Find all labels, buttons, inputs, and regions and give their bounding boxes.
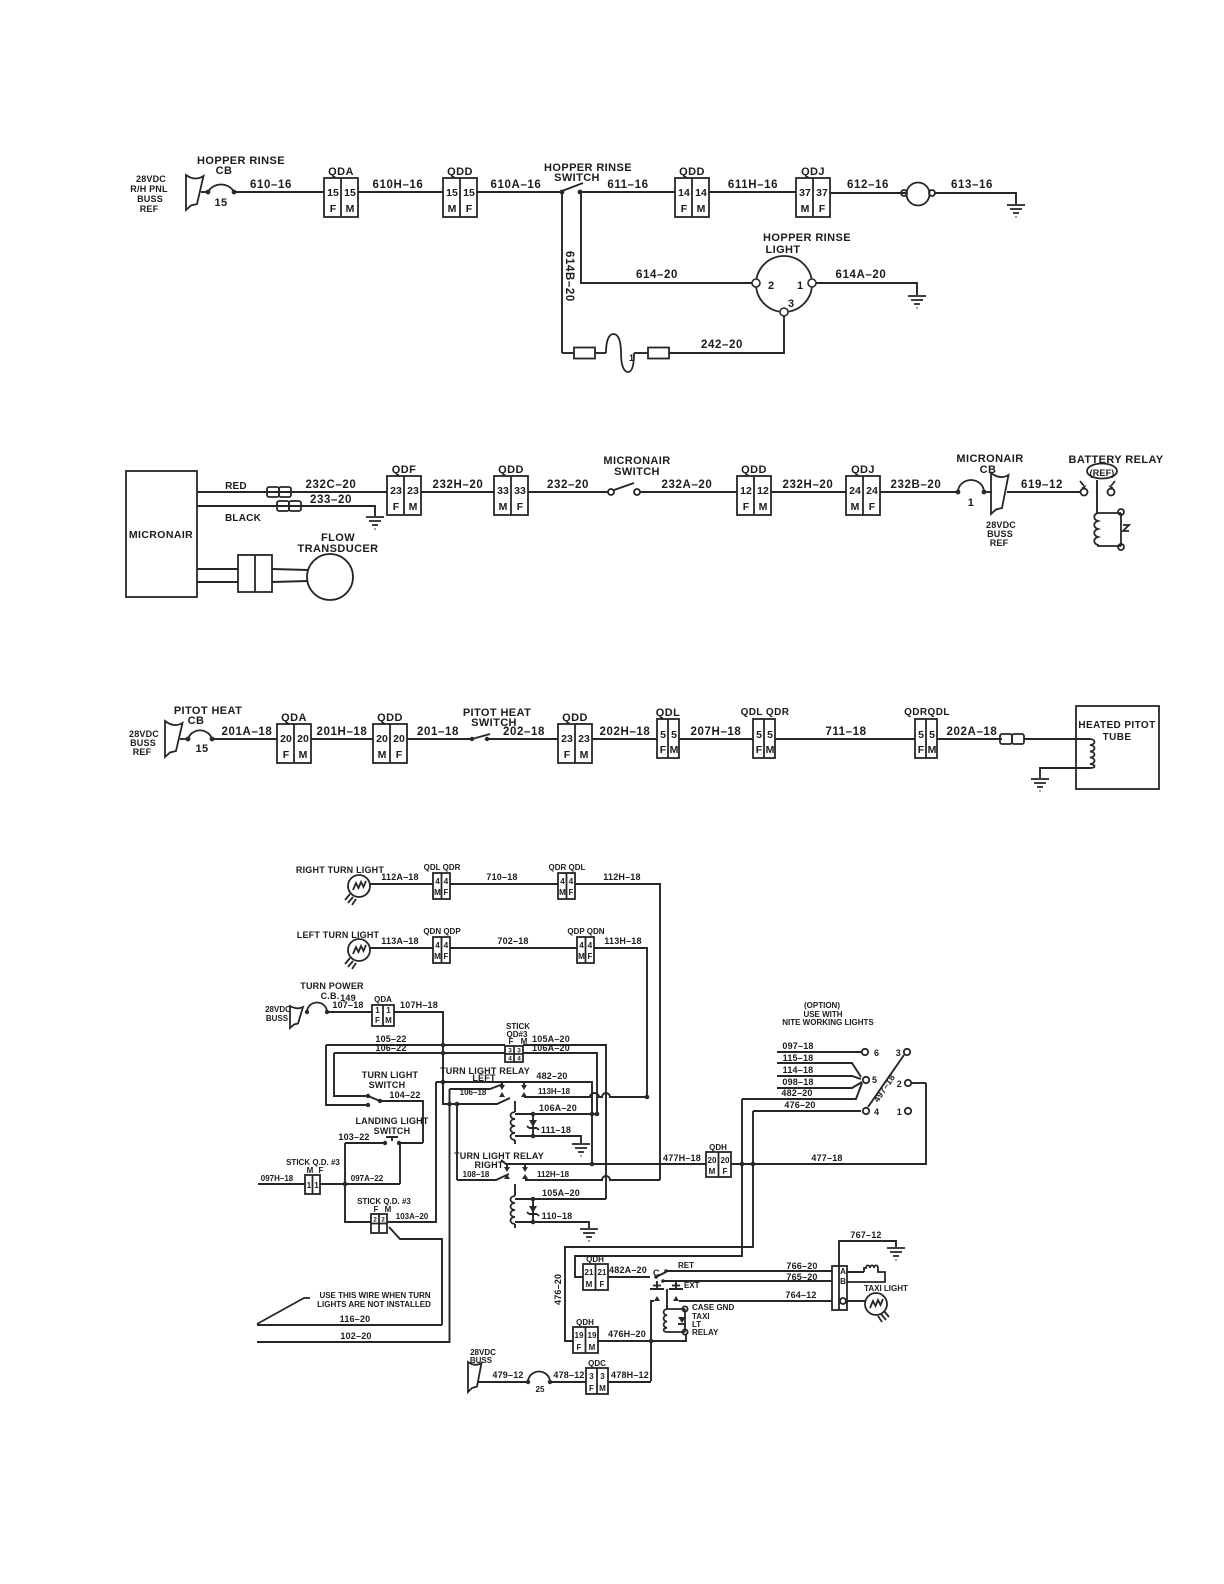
svg-text:REF: REF	[140, 204, 159, 214]
svg-text:3: 3	[517, 1048, 521, 1055]
svg-text:4: 4	[874, 1107, 879, 1117]
relay TURN LIGHT RELAY RIGHT	[454, 1151, 544, 1170]
svg-text:232–20: 232–20	[547, 479, 589, 491]
svg-text:QDD: QDD	[741, 464, 767, 476]
wire 202H-18	[592, 726, 657, 739]
wire 610H-16	[358, 179, 443, 192]
svg-text:M: M	[448, 203, 457, 215]
wire pitot ground lead	[1040, 768, 1090, 778]
svg-text:QDL: QDL	[656, 707, 680, 719]
svg-text:M: M	[580, 749, 589, 761]
svg-text:1: 1	[797, 280, 804, 292]
svg-text:2: 2	[381, 1217, 385, 1224]
svg-text:3: 3	[788, 298, 795, 310]
svg-text:LANDING LIGHT: LANDING LIGHT	[355, 1116, 428, 1126]
svg-text:232C–20: 232C–20	[306, 479, 357, 491]
wire 103A-20	[387, 1082, 436, 1222]
svg-text:REF: REF	[990, 538, 1009, 548]
svg-text:619–12: 619–12	[1021, 479, 1063, 491]
svg-text:15: 15	[195, 743, 208, 755]
svg-text:BUSS: BUSS	[266, 1014, 289, 1023]
circuit breaker CB HOPPER RINSE 15	[197, 155, 285, 209]
svg-text:SWITCH: SWITCH	[369, 1080, 406, 1090]
svg-text:RELAY: RELAY	[692, 1328, 719, 1337]
svg-text:106A–20: 106A–20	[532, 1043, 570, 1053]
svg-text:QDD: QDD	[498, 464, 524, 476]
buss bar turn power	[290, 1006, 303, 1028]
wire 110-18 to ground	[515, 1211, 589, 1228]
terminal 5	[863, 1075, 877, 1085]
svg-text:112A–18: 112A–18	[381, 872, 418, 882]
svg-text:610–16: 610–16	[250, 179, 292, 191]
inline connector 242-20 right	[648, 348, 669, 359]
svg-text:113H–18: 113H–18	[538, 1087, 571, 1096]
svg-text:F: F	[600, 1280, 605, 1289]
wire relay right top 477H feed	[501, 1160, 706, 1166]
svg-text:QDL QDR: QDL QDR	[741, 707, 790, 718]
switch PITOT HEAT SWITCH	[463, 707, 531, 741]
wire 111-18 to ground	[515, 1125, 581, 1143]
circuit breaker MICRONAIR CB 1	[956, 453, 1024, 509]
note (OPTION) USE WITH NITE WORKING LIGHTS	[782, 1001, 874, 1027]
inline connector 242-20 left	[574, 348, 595, 359]
svg-text:HOPPER RINSE: HOPPER RINSE	[763, 232, 851, 244]
HEATED PITOT TUBE box	[1076, 706, 1159, 789]
flow transducer coupling box	[238, 555, 272, 592]
svg-text:1: 1	[386, 1006, 391, 1015]
svg-text:478–12: 478–12	[553, 1370, 584, 1380]
svg-text:23: 23	[390, 485, 402, 497]
wire 476 option drop to QDH 19	[565, 1111, 753, 1341]
wire 115-18 option	[777, 1053, 861, 1077]
node 28VDC BUSS REF row3	[129, 729, 159, 757]
wire 201A-18	[212, 726, 277, 739]
svg-text:CB: CB	[216, 165, 233, 177]
svg-text:QDRQDL: QDRQDL	[904, 707, 950, 718]
svg-text:19: 19	[575, 1331, 584, 1340]
svg-text:482–20: 482–20	[536, 1071, 567, 1081]
svg-text:232A–20: 232A–20	[662, 479, 713, 491]
wire 477-18	[731, 1083, 926, 1166]
wire 112H-18 to relay right	[575, 872, 660, 1180]
svg-text:097H–18: 097H–18	[261, 1174, 294, 1183]
lamp RIGHT TURN LIGHT	[296, 865, 384, 905]
svg-text:HOPPER RINSE: HOPPER RINSE	[197, 155, 285, 167]
svg-text:BLACK: BLACK	[225, 513, 262, 524]
svg-text:3: 3	[896, 1048, 901, 1058]
wire 107-18	[327, 1000, 372, 1012]
wire RED 232C-20	[197, 479, 387, 492]
svg-text:20: 20	[708, 1156, 717, 1165]
svg-text:SWITCH: SWITCH	[374, 1126, 411, 1136]
svg-text:610A–16: 610A–16	[491, 179, 542, 191]
svg-text:612–16: 612–16	[847, 179, 889, 191]
svg-text:767–12: 767–12	[850, 1230, 881, 1240]
svg-text:3: 3	[600, 1372, 605, 1381]
svg-text:110–18: 110–18	[542, 1211, 573, 1221]
inline connector 202A-18	[1000, 734, 1024, 744]
svg-text:614A–20: 614A–20	[836, 269, 887, 281]
svg-text:476–20: 476–20	[784, 1100, 815, 1110]
connector QDP QDN 4/4 M/F small	[567, 927, 604, 963]
svg-text:F: F	[681, 203, 688, 215]
wire buss to CB row3	[180, 738, 188, 740]
svg-text:20: 20	[297, 733, 309, 745]
inline connector red wire	[267, 487, 291, 497]
svg-text:702–18: 702–18	[497, 936, 528, 946]
svg-text:F: F	[756, 744, 763, 756]
svg-text:106–22: 106–22	[375, 1043, 406, 1053]
svg-text:476H–20: 476H–20	[608, 1329, 646, 1339]
diode suppression relay right	[527, 1199, 539, 1222]
svg-text:M: M	[307, 1166, 314, 1175]
wire 764-12	[679, 1290, 832, 1301]
wire 613-16	[935, 179, 1016, 204]
svg-text:TURN POWER: TURN POWER	[300, 981, 364, 991]
wire 097A-22	[320, 1174, 400, 1186]
svg-text:764–12: 764–12	[785, 1290, 816, 1300]
svg-text:116–20: 116–20	[340, 1314, 371, 1324]
svg-text:TAXI LIGHT: TAXI LIGHT	[864, 1284, 908, 1293]
svg-text:SWITCH: SWITCH	[614, 466, 660, 478]
svg-text:4: 4	[444, 877, 449, 886]
wire 765-20 EXT line	[663, 1272, 832, 1282]
svg-text:113A–18: 113A–18	[381, 936, 418, 946]
svg-text:REF: REF	[133, 747, 152, 757]
svg-text:5: 5	[671, 729, 677, 741]
inline connector black wire	[277, 501, 301, 511]
svg-text:BATTERY RELAY: BATTERY RELAY	[1068, 454, 1163, 466]
svg-text:M: M	[697, 203, 706, 215]
wire 106-18 blade	[450, 1084, 504, 1097]
svg-text:14: 14	[678, 187, 690, 199]
wire 116-20	[257, 1314, 442, 1325]
connector QDL QDR 4/4 M/F small	[424, 863, 461, 899]
svg-text:QDL QDR: QDL QDR	[424, 863, 461, 872]
svg-text:QDH: QDH	[586, 1255, 604, 1264]
svg-text:F: F	[577, 1343, 582, 1352]
relay CASE GND TAXI LT RELAY contacts	[650, 1281, 683, 1309]
wire 611-16	[580, 179, 675, 192]
svg-text:202H–18: 202H–18	[600, 726, 651, 738]
FLOW TRANSDUCER sensor	[298, 532, 379, 600]
terminal 2	[897, 1079, 926, 1089]
svg-text:098–18: 098–18	[782, 1077, 813, 1087]
svg-text:207H–18: 207H–18	[691, 726, 742, 738]
svg-text:QDD: QDD	[447, 166, 473, 178]
svg-text:4: 4	[560, 877, 565, 886]
wire 614A-20	[816, 269, 917, 295]
svg-text:M: M	[851, 501, 860, 513]
wire 202A-18	[937, 726, 1002, 739]
contact relay left upper pair	[499, 1082, 527, 1097]
wire 098-18 option	[777, 1077, 862, 1088]
wire 482-20 relay left top	[436, 1071, 592, 1164]
svg-text:M: M	[670, 744, 679, 756]
terminal 6	[862, 1048, 879, 1058]
svg-text:12: 12	[757, 485, 769, 497]
wire 106-22	[334, 1043, 505, 1096]
connector QDH 21/21 M/F	[583, 1255, 608, 1290]
svg-text:F: F	[589, 1384, 594, 1393]
buss bar row3	[165, 721, 183, 757]
svg-text:15: 15	[446, 187, 458, 199]
svg-text:5: 5	[767, 729, 773, 741]
wire 105-22	[326, 1034, 505, 1105]
wire 619-12	[1007, 479, 1081, 492]
svg-text:611H–16: 611H–16	[728, 179, 778, 191]
svg-text:3: 3	[508, 1048, 512, 1055]
wire 482-20 option	[742, 1083, 862, 1099]
svg-text:15: 15	[463, 187, 475, 199]
connector QDA 1/1 F/M small	[372, 995, 394, 1026]
svg-text:M: M	[385, 1016, 392, 1025]
svg-text:LIGHT: LIGHT	[766, 244, 801, 256]
svg-text:37: 37	[799, 187, 811, 199]
svg-text:PITOT HEAT: PITOT HEAT	[174, 705, 242, 717]
svg-text:M: M	[559, 888, 566, 897]
svg-text:(REF): (REF)	[1090, 468, 1115, 478]
ground 767-12	[887, 1248, 905, 1260]
svg-text:F: F	[918, 744, 925, 756]
wire 107H-18 power feed	[394, 1000, 443, 1104]
svg-text:M: M	[434, 952, 441, 961]
svg-text:765–20: 765–20	[786, 1272, 817, 1282]
wire 108 riser from relay left	[456, 1104, 458, 1180]
svg-text:108–18: 108–18	[463, 1170, 490, 1179]
svg-text:NITE WORKING LIGHTS: NITE WORKING LIGHTS	[782, 1018, 874, 1027]
svg-text:M: M	[409, 501, 418, 513]
connector QDC 3/3 F/M	[586, 1359, 608, 1394]
connector QDL 5/5 F/M	[656, 707, 680, 758]
svg-text:37: 37	[816, 187, 828, 199]
svg-text:1: 1	[897, 1107, 902, 1117]
svg-text:20: 20	[376, 733, 388, 745]
svg-text:F: F	[393, 501, 400, 513]
svg-text:115–18: 115–18	[783, 1053, 814, 1063]
connector QDH 20/20 M/F	[706, 1143, 731, 1177]
switch MICRONAIR SWITCH	[603, 455, 670, 495]
wire 478H-12	[608, 1370, 651, 1382]
svg-text:F: F	[444, 952, 449, 961]
svg-text:F: F	[396, 749, 403, 761]
svg-text:1: 1	[314, 1181, 319, 1190]
diode suppression relay left	[527, 1114, 539, 1136]
svg-text:QDH: QDH	[576, 1318, 594, 1327]
connector QDF 23/23 F/M	[387, 464, 421, 515]
connector QDR QDL 4/4 M/F small	[549, 863, 586, 899]
svg-text:097A–22: 097A–22	[351, 1174, 384, 1183]
svg-text:F: F	[819, 203, 826, 215]
svg-text:610H–16: 610H–16	[373, 179, 424, 191]
svg-text:766–20: 766–20	[786, 1261, 817, 1271]
svg-text:RET: RET	[678, 1261, 694, 1270]
svg-text:1: 1	[375, 1006, 380, 1015]
svg-text:M: M	[499, 501, 508, 513]
wire 242-20 with inline fuses and flasher loop	[562, 316, 784, 353]
circuit breaker turn power	[305, 1003, 329, 1015]
svg-text:QDD: QDD	[562, 712, 588, 724]
svg-text:QDD: QDD	[679, 166, 705, 178]
switch RET/EXT selector	[654, 1261, 699, 1290]
svg-text:20: 20	[721, 1156, 730, 1165]
svg-text:M: M	[759, 501, 768, 513]
svg-text:710–18: 710–18	[486, 872, 517, 882]
svg-text:202A–18: 202A–18	[947, 726, 998, 738]
connector QDL QDR 5/5 F/M	[741, 707, 790, 758]
svg-text:QDA: QDA	[328, 166, 354, 178]
svg-text:LIGHTS ARE NOT INSTALLED: LIGHTS ARE NOT INSTALLED	[317, 1300, 431, 1309]
svg-text:CASE GND: CASE GND	[692, 1303, 734, 1312]
svg-text:102–20: 102–20	[340, 1331, 371, 1341]
node TURN POWER C.B. 149	[300, 981, 364, 1003]
svg-text:M: M	[378, 749, 387, 761]
wire 105A-20	[523, 1034, 606, 1199]
svg-text:M: M	[801, 203, 810, 215]
svg-text:QDA: QDA	[281, 712, 307, 724]
svg-text:232B–20: 232B–20	[891, 479, 942, 491]
svg-text:HEATED PITOT: HEATED PITOT	[1078, 720, 1155, 731]
wire 106A-20	[523, 1043, 597, 1114]
svg-text:F: F	[509, 1037, 514, 1046]
svg-text:QDF: QDF	[392, 464, 416, 476]
lamp TAXI LIGHT	[847, 1284, 908, 1322]
svg-text:106–18: 106–18	[460, 1088, 487, 1097]
wire 478-12	[550, 1370, 586, 1382]
wire 201H-18	[311, 726, 373, 739]
svg-text:20: 20	[393, 733, 405, 745]
svg-text:QDJ: QDJ	[851, 464, 875, 476]
svg-text:482A–20: 482A–20	[609, 1265, 647, 1275]
wire into pitot tube	[1024, 738, 1090, 740]
svg-text:103A–20: 103A–20	[396, 1212, 429, 1221]
svg-text:4: 4	[435, 941, 440, 950]
svg-text:233–20: 233–20	[310, 494, 352, 506]
svg-text:RIGHT: RIGHT	[475, 1160, 504, 1170]
wire 112H-18 relay right with hop	[525, 1170, 660, 1180]
wire 482 option drop to QDH 21	[575, 1099, 742, 1277]
switch LANDING LIGHT SWITCH	[338, 1116, 428, 1145]
svg-text:15: 15	[344, 187, 356, 199]
svg-text:BUSS: BUSS	[137, 194, 163, 204]
svg-text:1: 1	[968, 497, 975, 509]
svg-text:2: 2	[768, 280, 775, 292]
wire 710-18	[450, 872, 558, 884]
svg-text:5: 5	[872, 1075, 877, 1085]
svg-text:478H–12: 478H–12	[611, 1370, 649, 1380]
svg-text:USE THIS WIRE WHEN TURN: USE THIS WIRE WHEN TURN	[319, 1291, 430, 1300]
svg-text:M: M	[709, 1167, 716, 1176]
svg-text:4: 4	[579, 941, 584, 950]
svg-text:R/H PNL: R/H PNL	[130, 184, 168, 194]
wire 097A-22 riser	[399, 1143, 401, 1184]
wire 610-16	[234, 179, 324, 192]
svg-text:33: 33	[497, 485, 509, 497]
connector QDJ 37/37 M/F	[796, 166, 830, 217]
svg-text:201–18: 201–18	[417, 726, 459, 738]
svg-text:2: 2	[897, 1079, 902, 1089]
connector QDD 33/33 M/F	[494, 464, 528, 515]
relay BATTERY RELAY (REF)	[1068, 454, 1163, 550]
node 28VDC R/H PNL BUSS REF label	[130, 174, 168, 214]
wire 201-18	[407, 726, 472, 739]
wire 108-18 blade	[457, 1170, 509, 1180]
svg-text:23: 23	[578, 733, 590, 745]
svg-text:RIGHT TURN LIGHT: RIGHT TURN LIGHT	[296, 865, 384, 875]
wire 202-18	[487, 726, 558, 739]
svg-text:F: F	[517, 501, 524, 513]
svg-text:(OPTION): (OPTION)	[804, 1001, 840, 1010]
svg-text:4: 4	[569, 877, 574, 886]
ground pitot	[1031, 779, 1049, 791]
coil CASE GND TAXI LT RELAY	[664, 1303, 735, 1337]
wire 103-22 down leg	[345, 1143, 371, 1222]
flasher element 1	[606, 334, 634, 372]
svg-text:104–22: 104–22	[389, 1090, 420, 1100]
svg-text:232H–20: 232H–20	[433, 479, 484, 491]
connector QDD 12/12 F/M	[737, 464, 771, 515]
connector STICK Q.D. #3 F M (103A)	[357, 1197, 411, 1233]
buss bar 28VDC R/H PNL	[186, 175, 204, 210]
svg-text:M: M	[599, 1384, 606, 1393]
switch TURN LIGHT SWITCH	[362, 1070, 419, 1107]
wire taxi relay common to 478H	[651, 1301, 654, 1381]
lamp LEFT TURN LIGHT	[297, 930, 380, 969]
wire 614-20	[581, 192, 752, 283]
svg-text:QDP QDN: QDP QDN	[567, 927, 604, 936]
svg-text:RED: RED	[225, 481, 247, 492]
svg-text:107H–18: 107H–18	[400, 1000, 438, 1010]
svg-text:202–18: 202–18	[503, 726, 545, 738]
ground lamp 614A-20	[908, 296, 926, 308]
svg-text:5: 5	[929, 729, 935, 741]
wire 612-16	[830, 179, 906, 193]
ground 111-18	[572, 1144, 590, 1156]
svg-text:QDC: QDC	[588, 1359, 606, 1368]
circuit breaker PITOT HEAT CB 15	[174, 705, 242, 755]
wire 113A-18	[370, 936, 433, 948]
svg-text:477–18: 477–18	[811, 1153, 842, 1163]
connector QDH 19/19 F/M	[573, 1318, 598, 1353]
wire 702-18	[450, 936, 577, 948]
wire alternate path diagonal from stick connector	[389, 1227, 442, 1325]
svg-text:QDR QDL: QDR QDL	[549, 863, 586, 872]
connector QDRQDL 5/5 F/M	[904, 707, 950, 758]
svg-text:F: F	[374, 1205, 379, 1214]
svg-text:QDD: QDD	[377, 712, 403, 724]
svg-text:F: F	[569, 888, 574, 897]
svg-text:112H–18: 112H–18	[603, 872, 640, 882]
svg-text:4: 4	[508, 1056, 512, 1063]
wire BLACK 233-20	[197, 494, 375, 524]
heater coil element pitot	[1090, 739, 1095, 768]
svg-text:M: M	[578, 952, 585, 961]
svg-text:B: B	[840, 1277, 846, 1286]
wire 097H-18 stub	[258, 1174, 305, 1184]
svg-text:3: 3	[589, 1372, 594, 1381]
svg-text:F: F	[660, 744, 667, 756]
svg-text:23: 23	[407, 485, 419, 497]
wire 097-18 option	[777, 1041, 861, 1052]
wire 610A-16	[477, 179, 562, 192]
svg-text:20: 20	[280, 733, 292, 745]
wire 104-22	[380, 1090, 423, 1143]
wire 232A-20	[640, 479, 737, 492]
contact relay right pair	[504, 1164, 528, 1179]
svg-text:F: F	[444, 888, 449, 897]
svg-text:107–18: 107–18	[332, 1000, 363, 1010]
wire 106A-20 coil feed	[515, 1103, 599, 1116]
